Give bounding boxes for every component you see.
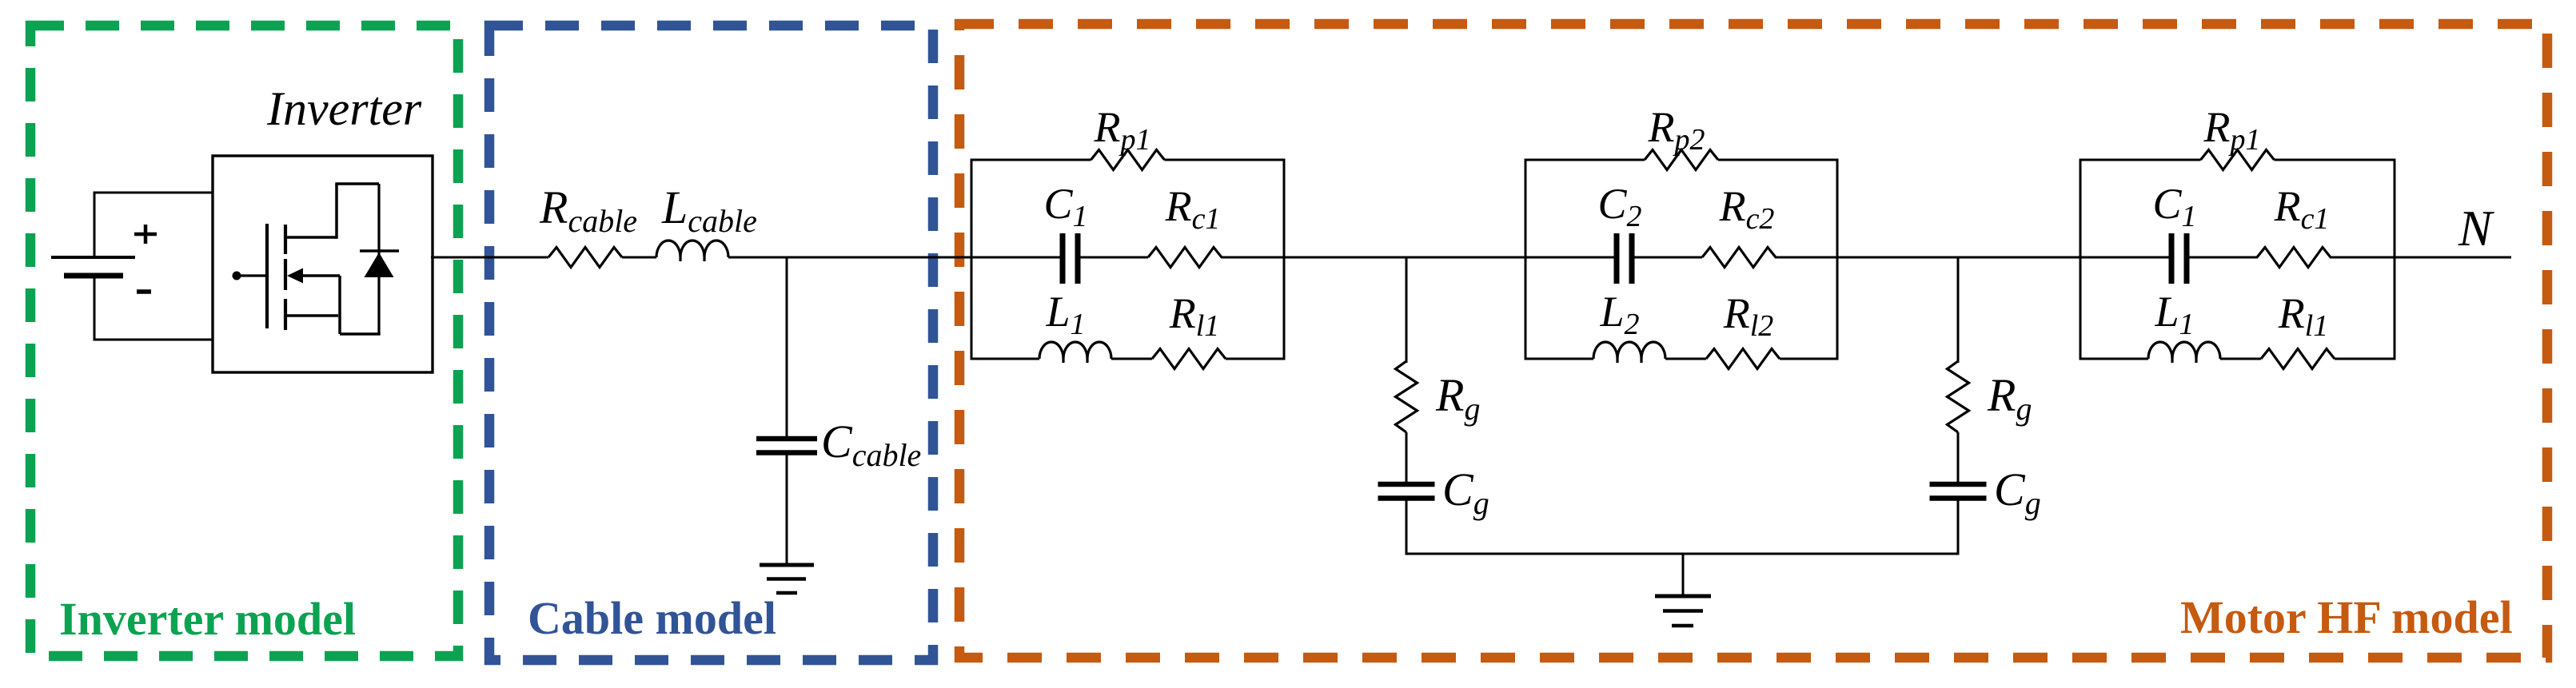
wire block 3 top edge right (2275, 159, 2395, 161)
resistor Rl2 (block 2 bottom) (1706, 349, 1780, 369)
wire block 2 bottom edge left (1525, 358, 1593, 360)
capacitor C_cable (756, 436, 817, 442)
wire block 3 bottom edge mid (2220, 358, 2261, 360)
capacitor Cg (1) (1378, 482, 1435, 487)
wire Q1 body with arrow (299, 274, 340, 277)
wire block 1 top edge right (1165, 159, 1285, 161)
wire block2 to block3 (1775, 257, 2173, 259)
node junction 1 / wire down to Rg (1406, 257, 1408, 363)
resistor Rp2 (block 2 top) (1645, 150, 1718, 170)
inductor L2 (block 2 bottom) (1593, 342, 1665, 359)
resistor Rl1 (block 3 bottom) (2261, 349, 2335, 369)
resistor Rl1 (block 1 bottom) (1152, 349, 1226, 369)
resistor Rc2 (block 2 series) (1702, 248, 1776, 268)
resistor Rc1 (block 1 series) (1148, 248, 1222, 268)
capacitor C2 (block 2 series) (1614, 233, 1620, 284)
motor RLC block 3: right edge (2394, 159, 2396, 360)
transistor Q1 gate terminal dot (233, 272, 241, 280)
label - (137, 289, 151, 294)
motor RLC block 3: left edge (2080, 159, 2082, 360)
transistor Q1 channel bar (dashed) (284, 225, 287, 254)
node junction 2 / wire down to Rg (1957, 257, 1960, 363)
wire block 1 top edge left (971, 159, 1091, 161)
battery short plate (-) (64, 273, 123, 279)
wire inverter output (431, 257, 548, 259)
svg-text:Inverter model: Inverter model (59, 593, 356, 645)
wire Rg to Cg (2) (1957, 432, 1960, 482)
svg-text:Cable model: Cable model (528, 592, 776, 644)
inductor L_cable (656, 241, 728, 257)
resistor Rg (1) (1396, 361, 1418, 432)
wire (728, 257, 1065, 259)
capacitor Cg (2) (1930, 482, 1987, 487)
wire block 2 bottom edge right (1780, 358, 1837, 360)
wire block 1 bottom edge right (1226, 358, 1284, 360)
wire block 1 bottom edge mid (1111, 358, 1152, 360)
ground (cable model) (760, 563, 814, 567)
wire (622, 257, 656, 259)
motor RLC block 2: right edge (1836, 159, 1839, 360)
wire gate lead (239, 274, 265, 276)
battery long plate (+) (51, 256, 135, 259)
wire battery top lead down (94, 192, 96, 257)
wire block3 to node N (2330, 257, 2511, 259)
resistor Rg (2) (1948, 361, 1969, 432)
wire block 1 bottom edge left (971, 358, 1039, 360)
svg-text:N: N (2458, 201, 2494, 257)
svg-text:Motor HF model: Motor HF model (2180, 591, 2513, 643)
wire (786, 455, 788, 564)
wire battery bottom lead down (94, 277, 96, 341)
inductor L1 (block 1 bottom) (1039, 342, 1111, 359)
wire block 2 bottom edge mid (1665, 358, 1706, 360)
motor RLC block 1: right edge (1283, 159, 1286, 360)
wire block 1 middle (1080, 257, 1148, 259)
wire ground bus (1406, 553, 1960, 555)
capacitor C1 (block 3 series) (2169, 233, 2175, 284)
wire block 2 top edge right (1718, 159, 1837, 161)
ground (motor model) (1682, 554, 1685, 595)
wire block3 cap to Rc3 (2188, 257, 2257, 259)
wire Rg to Cg (1) (1406, 432, 1408, 482)
wire block 2 top edge left (1525, 159, 1645, 161)
battery DC source: positive terminal wire (94, 192, 214, 194)
wire block1 to block2 (1221, 257, 1618, 259)
wire Q1 drain (285, 236, 337, 239)
motor RLC block 2: left edge (1525, 159, 1527, 360)
wire Q1 source (285, 314, 338, 317)
inductor L1 (block 3 bottom) (2148, 342, 2220, 359)
wire block1 cap to Rc1 (1079, 257, 1148, 259)
capacitor C1 (block 1 series) (1060, 233, 1066, 284)
Inverter model boundary (green dashed box) (30, 26, 458, 656)
inverter block box (213, 156, 433, 372)
Motor HF model boundary (orange dashed box) (959, 24, 2547, 658)
motor RLC block 1: left edge (971, 159, 973, 360)
battery negative terminal wire (94, 339, 214, 341)
wire block 3 middle (2189, 257, 2258, 259)
wire block2 cap to Rc2 (1633, 257, 1702, 259)
resistor R_cable (548, 248, 622, 268)
svg-text:Inverter: Inverter (266, 82, 422, 135)
wire Cg down (2) (1957, 500, 1960, 555)
wire Cg down (1) (1406, 500, 1408, 555)
label + (134, 233, 157, 237)
diode D1 (freewheeling) (377, 184, 380, 334)
resistor Rc1 (block 3 series) (2257, 248, 2331, 268)
resistor Rp1 (block 1 top) (1091, 150, 1165, 170)
Cable model boundary (blue dashed box) (489, 26, 933, 660)
transistor Q1 gate bar (265, 224, 269, 328)
resistor Rp1 (block 3 top) (2201, 150, 2275, 170)
wire block 3 top edge left (2080, 159, 2201, 161)
wire block 3 bottom edge right (2335, 358, 2395, 360)
wire block 2 middle (1634, 257, 1702, 259)
wire block 3 bottom edge left (2080, 358, 2148, 360)
node cable shunt junction / wire down (786, 257, 788, 436)
